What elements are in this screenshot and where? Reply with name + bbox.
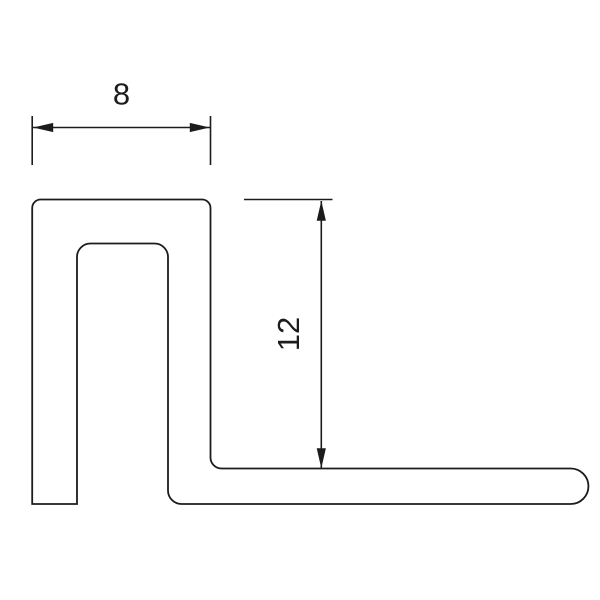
svg-text:12: 12	[271, 317, 306, 351]
svg-text:8: 8	[113, 77, 130, 112]
